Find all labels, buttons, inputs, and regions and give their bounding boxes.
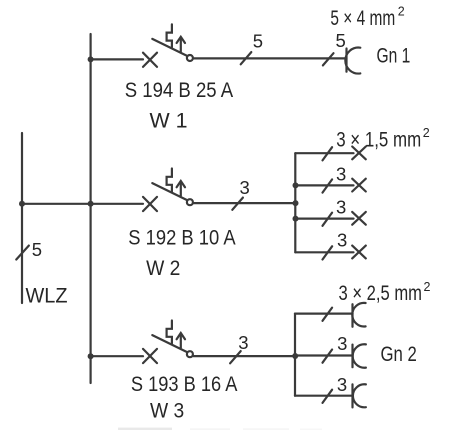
wire branch W2 to breaker [91, 203, 143, 205]
svg-text:3: 3 [336, 196, 346, 217]
socket outlet Gn2-2 [353, 344, 366, 367]
svg-text:3: 3 [238, 332, 248, 353]
breaker S2 (S 192 B 10 A) [143, 169, 193, 212]
conductor-count slash W3 [230, 351, 241, 363]
conductor-count slash W1-b [323, 53, 334, 65]
cropped text remnant at bottom edge [118, 428, 322, 430]
conductor-count slash lamp2 [323, 179, 333, 192]
svg-text:S 192 B 10 A: S 192 B 10 A [128, 227, 235, 250]
svg-text:W 2: W 2 [146, 257, 180, 280]
junction node W2 tap [88, 201, 94, 207]
wire main bus riser [89, 34, 91, 383]
wire lamp branch 2 [295, 184, 353, 186]
svg-text:Gn 1: Gn 1 [377, 45, 411, 68]
wire socket branch 3 [295, 395, 353, 397]
svg-text:Gn 2: Gn 2 [381, 343, 417, 366]
conductor-count slash on WLZ [16, 246, 29, 260]
svg-text:W 1: W 1 [150, 110, 188, 133]
svg-text:3 × 2,5 mm2: 3 × 2,5 mm2 [339, 280, 431, 305]
svg-text:3: 3 [240, 177, 250, 198]
wire WLZ tap link [22, 203, 91, 205]
wire socket branch 1 [295, 313, 353, 315]
svg-text:3: 3 [336, 163, 346, 184]
svg-text:3: 3 [337, 230, 347, 251]
wire lamp branch 3 [295, 218, 353, 220]
junction node W1 tap [88, 56, 94, 62]
lighting outlet X4 [352, 246, 366, 259]
conductor-count slash lamp4 [323, 246, 333, 259]
wire lamp branch 1 [295, 152, 353, 154]
svg-text:5: 5 [32, 239, 42, 260]
socket outlet Gn2-3 [353, 384, 366, 407]
junction node W3 tap [88, 353, 94, 359]
lighting outlet X2 [352, 179, 366, 192]
svg-text:S 193 B 16 A: S 193 B 16 A [131, 373, 238, 396]
breaker S3 (S 193 B 16 A) [143, 321, 193, 364]
wire branch W1 breaker to socket [193, 57, 346, 59]
svg-text:3: 3 [337, 333, 347, 354]
svg-text:3 × 1,5 mm2: 3 × 1,5 mm2 [336, 126, 430, 152]
svg-text:S 194 B 25 A: S 194 B 25 A [125, 79, 234, 102]
lighting outlet X3 [352, 212, 366, 225]
svg-text:3: 3 [337, 374, 347, 395]
wire socket distribution riser [294, 314, 296, 396]
socket outlet Gn 1 [345, 48, 360, 74]
wire socket branch 2 [295, 354, 353, 356]
wire branch W3 breaker to distribution [193, 355, 295, 357]
breaker S1 (S 194 B 25 A) [143, 24, 193, 67]
lighting outlet X1 [352, 147, 366, 160]
wire branch W1 to breaker [91, 58, 143, 60]
svg-text:5: 5 [253, 31, 263, 52]
junction node W3 feed [292, 353, 298, 359]
conductor-count slash socket1 [323, 308, 333, 321]
svg-text:5 × 4 mm2: 5 × 4 mm2 [330, 5, 404, 31]
conductor-count slash lamp1 [323, 147, 333, 160]
wire branch W3 to breaker [91, 355, 143, 357]
conductor-count slash lamp3 [323, 213, 333, 226]
conductor-count slash W2 [232, 198, 243, 210]
conductor-count slash socket2 [323, 350, 333, 363]
junction node WLZ tap [19, 201, 25, 207]
junction node lamp3 [293, 216, 299, 222]
svg-text:5: 5 [336, 30, 346, 51]
wire lamp branch 4 [295, 251, 353, 253]
wire WLZ riser [21, 133, 23, 303]
junction node lamp2 [293, 182, 299, 188]
wire branch W2 breaker to distribution [193, 202, 295, 204]
svg-text:W 3: W 3 [150, 400, 184, 423]
conductor-count slash W1-a [241, 52, 252, 64]
wire lighting distribution riser [294, 153, 296, 252]
conductor-count slash socket3 [323, 390, 333, 403]
socket outlet Gn2-1 [352, 303, 365, 327]
junction node W2 feed [293, 200, 299, 206]
svg-text:WLZ: WLZ [26, 285, 68, 308]
